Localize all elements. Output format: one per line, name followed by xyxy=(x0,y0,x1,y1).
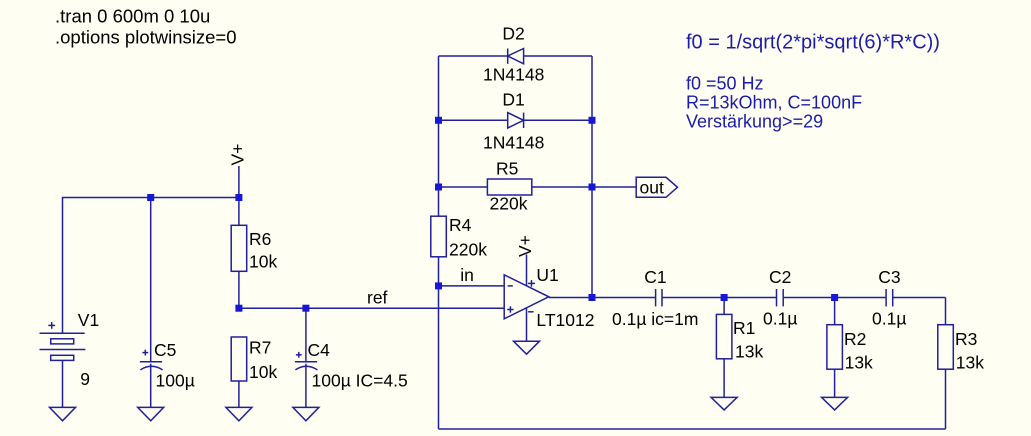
junction ref at R6/R7 xyxy=(235,305,242,312)
junction C1/R1 node xyxy=(721,294,728,301)
svg-text:V+: V+ xyxy=(228,144,248,166)
junction R5 right xyxy=(589,184,596,191)
resistor R1 xyxy=(716,314,732,358)
wire R1 top lead xyxy=(723,298,725,315)
junction output node xyxy=(589,294,596,301)
svg-text:ref: ref xyxy=(367,288,388,308)
resistor R3 xyxy=(938,325,954,370)
junction in node xyxy=(435,282,442,289)
capacitor C1 xyxy=(656,289,662,306)
ground under R1 xyxy=(711,397,737,410)
wire R6 top lead xyxy=(238,198,240,226)
svg-text:C2: C2 xyxy=(769,267,791,287)
wire top rail V1 to R6 column xyxy=(63,198,239,333)
wire opamp output to C1 xyxy=(549,297,656,299)
wire V+ stub above R6 xyxy=(238,166,240,198)
wire R2 top lead xyxy=(834,298,836,325)
diode D1 xyxy=(508,113,524,128)
wire R1 bottom to ground xyxy=(723,359,725,398)
wire R5 right lead xyxy=(532,186,592,188)
svg-text:D2: D2 xyxy=(502,24,524,44)
wire D2 right lead xyxy=(524,55,592,57)
svg-text:0.1µ: 0.1µ xyxy=(872,309,906,329)
ground under op-amp xyxy=(514,341,540,354)
wire right rail D2 to output xyxy=(591,56,593,298)
svg-text:100µ IC=4.5: 100µ IC=4.5 xyxy=(312,371,408,391)
wire C5 top xyxy=(150,198,152,362)
wire opamp V- supply to ground xyxy=(526,308,528,341)
wire C1 to C2 xyxy=(662,297,777,299)
svg-text:0.1µ ic=1m: 0.1µ ic=1m xyxy=(612,309,698,329)
wire R3 bottom to feedback rail xyxy=(945,369,947,429)
svg-text:.options plotwinsize=0: .options plotwinsize=0 xyxy=(55,27,237,48)
wire D2 left lead xyxy=(439,55,508,57)
wire D1 right lead xyxy=(524,119,592,121)
svg-text:D1: D1 xyxy=(502,90,524,110)
wire bottom feedback rail xyxy=(439,428,946,430)
svg-text:10k: 10k xyxy=(249,362,277,382)
wire D1 left lead xyxy=(439,119,508,121)
op-amp U1 xyxy=(504,275,549,319)
port out xyxy=(636,177,677,197)
junction R5 left xyxy=(435,184,442,191)
resistor R6 xyxy=(231,225,247,271)
junction D1 right xyxy=(589,117,596,124)
diode D2 xyxy=(508,49,524,64)
capacitor C3 xyxy=(886,289,893,306)
svg-text:R3: R3 xyxy=(955,329,977,349)
junction D1 left xyxy=(435,117,442,124)
wire C2 to C3 xyxy=(783,297,886,299)
wire R2 bottom to ground xyxy=(834,369,836,397)
svg-text:out: out xyxy=(640,178,664,198)
svg-text:1N4148: 1N4148 xyxy=(483,65,544,85)
svg-text:.tran 0 600m 0 10u: .tran 0 600m 0 10u xyxy=(55,6,210,27)
svg-text:R6: R6 xyxy=(249,229,271,249)
ground under C5 xyxy=(138,407,164,420)
svg-text:220k: 220k xyxy=(449,240,487,260)
svg-text:13k: 13k xyxy=(735,342,763,362)
wire opamp V+ supply xyxy=(526,255,528,287)
svg-text:R7: R7 xyxy=(249,338,271,358)
wire R7 bottom to ground xyxy=(238,381,240,407)
wire in net horizontal xyxy=(439,285,505,287)
resistor R7 xyxy=(231,337,247,381)
svg-text:13k: 13k xyxy=(845,353,873,373)
junction C2/R2 node xyxy=(831,294,838,301)
svg-text:U1: U1 xyxy=(536,265,558,285)
wire left rail R4 to bottom rail xyxy=(438,257,440,429)
svg-text:C3: C3 xyxy=(878,267,900,287)
wire left rail top D2 to R4 xyxy=(438,56,440,216)
ground under R2 xyxy=(822,397,848,410)
svg-text:R2: R2 xyxy=(844,329,866,349)
wire C5 bottom to ground xyxy=(150,364,152,408)
wire C4 bottom to ground xyxy=(305,364,307,408)
svg-text:LT1012: LT1012 xyxy=(536,310,594,330)
svg-text:R5: R5 xyxy=(496,159,518,179)
svg-text:10k: 10k xyxy=(249,252,277,272)
junction C5 top xyxy=(147,194,154,201)
svg-text:V1: V1 xyxy=(78,310,99,330)
battery V1 xyxy=(40,322,86,360)
svg-text:f0 = 1/sqrt(2*pi*sqrt(6)*R*C)): f0 = 1/sqrt(2*pi*sqrt(6)*R*C)) xyxy=(686,32,940,54)
svg-text:f0 =50 Hz: f0 =50 Hz xyxy=(686,74,764,94)
wire ref net horizontal xyxy=(239,307,504,309)
wire R5 left lead xyxy=(439,186,488,188)
resistor R4 xyxy=(431,216,447,257)
wire C4 top lead xyxy=(305,308,307,362)
wire V1 bottom to ground xyxy=(62,360,64,407)
resistor R5 xyxy=(487,179,531,195)
ground under R7 xyxy=(226,407,252,420)
capacitor C2 xyxy=(777,289,784,306)
svg-text:V+: V+ xyxy=(515,235,535,257)
wire R6 bottom lead to ref node xyxy=(238,271,240,308)
svg-text:R=13kOhm, C=100nF: R=13kOhm, C=100nF xyxy=(686,93,862,113)
ground under V1 xyxy=(50,407,76,420)
wire out net to port xyxy=(592,186,636,188)
svg-text:C4: C4 xyxy=(308,340,331,360)
wire R3 top lead xyxy=(945,298,947,325)
svg-text:0.1µ: 0.1µ xyxy=(763,309,797,329)
junction ref at C4 xyxy=(302,305,309,312)
capacitor C4 xyxy=(295,352,318,370)
svg-text:220k: 220k xyxy=(490,194,528,214)
svg-text:9: 9 xyxy=(80,369,90,389)
svg-text:C5: C5 xyxy=(154,340,176,360)
svg-text:Verstärkung>=29: Verstärkung>=29 xyxy=(686,112,823,132)
svg-text:1N4148: 1N4148 xyxy=(483,133,544,153)
svg-text:100µ: 100µ xyxy=(156,371,195,391)
svg-text:R4: R4 xyxy=(449,215,472,235)
ground under C4 xyxy=(293,407,319,420)
svg-text:13k: 13k xyxy=(956,353,984,373)
wire C3 to right corner xyxy=(893,297,946,299)
junction V+ rail R6 xyxy=(235,194,242,201)
svg-text:R1: R1 xyxy=(733,318,755,338)
capacitor C5 xyxy=(140,350,163,370)
svg-text:in: in xyxy=(460,265,474,285)
svg-text:C1: C1 xyxy=(644,267,666,287)
resistor R2 xyxy=(827,325,843,370)
